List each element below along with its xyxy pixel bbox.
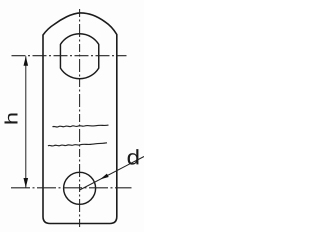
h dimension line [25, 56, 27, 187]
part outline (eye link plate) [43, 13, 117, 224]
d leader line [80, 157, 144, 191]
h dimension top arrowhead [24, 56, 29, 66]
top hole horizontal centerline [12, 55, 127, 57]
d leader arrowhead [100, 174, 109, 180]
break wavy line 2 [48, 143, 107, 146]
h dimension bottom arrowhead [24, 178, 29, 188]
label h (rotated 90 CCW) [5, 113, 18, 123]
vertical centerline [79, 9, 81, 230]
top eye: circle with vertical flats [60, 34, 98, 79]
bottom hole d [64, 172, 96, 204]
label d [128, 149, 139, 164]
break wavy line 1 [53, 125, 109, 127]
bottom hole horizontal centerline [11, 187, 132, 189]
